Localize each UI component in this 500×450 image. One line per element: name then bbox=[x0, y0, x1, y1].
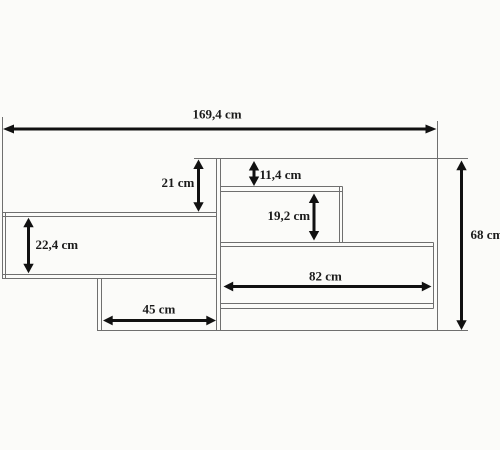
svg-text:45 cm: 45 cm bbox=[143, 302, 176, 317]
svg-text:82 cm: 82 cm bbox=[309, 269, 342, 284]
svg-text:19,2 cm: 19,2 cm bbox=[268, 208, 311, 223]
svg-text:68 cm: 68 cm bbox=[471, 227, 500, 242]
svg-text:169,4 cm: 169,4 cm bbox=[193, 107, 242, 122]
svg-text:21 cm: 21 cm bbox=[162, 175, 195, 190]
svg-text:22,4 cm: 22,4 cm bbox=[36, 237, 79, 252]
svg-text:11,4 cm: 11,4 cm bbox=[260, 167, 302, 182]
